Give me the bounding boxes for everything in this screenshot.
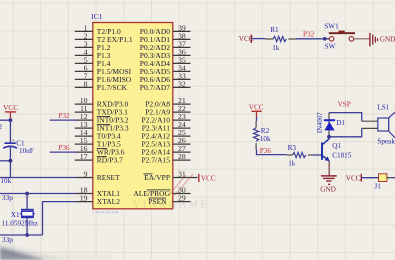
pin 30 (ALE/PROG) stub, number and name: [133, 185, 190, 198]
wire switch to ground: [354, 38, 370, 40]
diode D1 (IN4007): [324, 120, 335, 130]
wire emitter to ground: [328, 161, 330, 175]
wire diode top to speaker +: [329, 113, 378, 122]
svg-text:28: 28: [178, 152, 186, 161]
svg-text:11.0592Mhz: 11.0592Mhz: [2, 219, 38, 227]
pin 29 (PSEN) stub, number and name: [148, 194, 190, 207]
watermark small blue script: [93, 209, 120, 215]
label J1: [374, 183, 381, 191]
wire R1 to switch: [297, 38, 330, 40]
IC U1 body (8051): [93, 23, 173, 209]
label 1k (R3): [288, 159, 296, 167]
pin 19 (XTAL2) stub, number and name: [76, 194, 120, 207]
pin 36 (P0.3/AD3) stub, number and name: [140, 47, 191, 60]
svg-text:P1.7/SCK: P1.7/SCK: [97, 83, 128, 92]
transistor Q1 (NPN C1815): [322, 139, 330, 162]
wire collector node to speaker -: [329, 128, 378, 136]
svg-text:SW1: SW1: [324, 23, 339, 31]
pin 5 (P1.4) stub, number and name: [75, 55, 111, 68]
label 11.0592Mhz: [2, 219, 38, 227]
wire VCC to R1: [251, 38, 265, 40]
pin 33 (P0.6/AD6) stub, number and name: [140, 71, 191, 84]
svg-text:19: 19: [80, 194, 88, 203]
power port VCC (top-right row): [239, 35, 254, 44]
label 10uF: [19, 147, 34, 155]
svg-text:10uF: 10uF: [19, 147, 34, 155]
svg-text:10k: 10k: [0, 177, 11, 185]
power port VCC (above R2): [249, 104, 264, 118]
wire J1 right pin: [387, 177, 395, 179]
svg-text:VCC: VCC: [346, 175, 361, 183]
pin 22 (P2.1/A9) stub, number and name: [145, 104, 190, 117]
pin 28 (P2.7/A15) stub, number and name: [141, 152, 190, 165]
wire from left edge to VCC rail node: [0, 119, 10, 121]
label D1: [336, 119, 345, 127]
svg-text:1k: 1k: [288, 159, 296, 167]
junction node before switch: [323, 37, 327, 41]
wire down to crystal: [26, 194, 28, 210]
label LS1: [377, 103, 389, 111]
svg-text:SW: SW: [325, 42, 336, 50]
svg-text:LS1: LS1: [377, 103, 389, 111]
wire reset node to pin 9: [0, 177, 77, 179]
wire R2 to corner: [257, 150, 287, 155]
svg-text:J1: J1: [374, 183, 381, 191]
wire VCC rail down to C1: [9, 118, 11, 143]
pin 38 (P0.1/AD1) stub, number and name: [140, 31, 191, 44]
label 33p (top capacitor, off-screen): [2, 194, 13, 202]
pin 26 (P2.5/A13) stub, number and name: [141, 136, 190, 149]
net label P32 (key): [303, 31, 315, 39]
pin 34 (P0.5/AD5) stub, number and name: [140, 63, 191, 76]
label X1: [11, 211, 20, 219]
svg-text:VCC: VCC: [201, 174, 216, 182]
pin 18 (XTAL1) stub, number and name: [76, 185, 120, 198]
pin 15 (T1/P3.5) stub, number and name: [75, 136, 121, 149]
wire collector up / diode rail: [328, 113, 330, 139]
power port VCC (EA/VPP pin 31): [199, 174, 216, 183]
pin 2 (T2 EX/P1.1) stub, number and name: [75, 31, 133, 44]
net label P36 (base): [260, 147, 272, 155]
svg-text:R3: R3: [288, 144, 297, 152]
wire P32 to pin 12: [50, 119, 77, 121]
svg-text:9: 9: [84, 169, 88, 178]
power port VCC (top-left): [3, 103, 18, 118]
svg-text:17: 17: [80, 152, 88, 161]
svg-text:C1815: C1815: [332, 152, 352, 160]
wire from left edge into reset rail: [0, 160, 10, 162]
wire up to XTAL2 pin 19: [43, 202, 78, 235]
net label P36: [58, 144, 70, 152]
pin 32 (P0.7/AD7) stub, number and name: [140, 79, 191, 92]
svg-text:IN4007: IN4007: [317, 112, 324, 133]
wire XTAL1 pin 18 to left edge: [0, 193, 77, 195]
pin 16 (WR/P3.6) stub, number and name: [76, 144, 125, 157]
pin 14 (T0/P3.4) stub, number and name: [75, 128, 121, 141]
label Q1: [332, 142, 341, 150]
pin 6 (P1.5/MOSI) stub, number and name: [75, 63, 132, 76]
svg-text:VCC: VCC: [3, 103, 18, 112]
pin 25 (P2.4/A12) stub, number and name: [141, 128, 190, 141]
svg-text:IC1: IC1: [91, 12, 102, 21]
svg-text:1k: 1k: [272, 44, 280, 52]
bottom-left corner shadow: [0, 242, 112, 260]
label 10k (resistor cut off at edge): [0, 177, 11, 185]
label SW1: [324, 23, 339, 31]
junction node collector/diode: [327, 135, 331, 139]
junction node reset rail: [9, 159, 13, 163]
svg-text:GND: GND: [380, 36, 395, 44]
pin 17 (RD/P3.7) stub, number and name: [75, 152, 123, 165]
pin 10 (RXD/P3.0) stub, number and name: [75, 96, 129, 109]
net label P32: [58, 112, 70, 120]
svg-text:P32: P32: [303, 31, 315, 39]
pin 35 (P0.4/AD4) stub, number and name: [140, 55, 191, 68]
pin 39 (P0.0/AD0) stub, number and name: [140, 23, 191, 36]
label SW: [325, 42, 336, 50]
svg-text:33p: 33p: [2, 194, 13, 202]
power port GND (bar style, top-right): [370, 33, 395, 46]
svg-text:R2: R2: [261, 127, 270, 135]
pin 23 (P2.2/A10) stub, number and name: [141, 112, 190, 125]
pin 27 (P2.6/A14) stub, number and name: [141, 144, 190, 157]
pin 21 (P2.0/A8) stub, number and name: [145, 96, 190, 109]
label 1k (R1): [272, 44, 280, 52]
pin 7 (P1.6/MISO) stub, number and name: [75, 71, 132, 84]
label C1815: [332, 152, 352, 160]
wire VCC to R2: [256, 117, 258, 121]
junction node on VCC rail: [9, 118, 13, 122]
label Speaker: [377, 137, 395, 145]
resistor R1: [265, 36, 297, 41]
svg-text:RESET: RESET: [97, 173, 120, 182]
pin 4 (P1.3) stub, number and name: [75, 47, 111, 60]
power port GND (earth, below Q1): [320, 176, 337, 194]
svg-text:P36: P36: [58, 144, 70, 152]
watermark red strokes: [169, 174, 193, 195]
power port VCC (J1): [346, 174, 362, 183]
pin 11 (TXD/P3.1) stub, number and name: [75, 104, 128, 117]
pin 8 (P1.7/SCK) stub, number and name: [75, 79, 128, 92]
switch SW1 (push button): [329, 31, 355, 41]
svg-text:i vvvv.vn.ww: i vvvv.vn.ww: [93, 209, 120, 215]
pin 37 (P0.2/AD2) stub, number and name: [140, 39, 191, 52]
svg-text:P0.7/AD7: P0.7/AD7: [140, 83, 170, 92]
wire VCC to J1: [361, 177, 378, 179]
wire P36 to pin 16: [50, 151, 77, 153]
svg-text:D1: D1: [336, 119, 345, 127]
svg-text:+: +: [12, 138, 15, 144]
wire R3 to Q1 base: [313, 154, 321, 156]
resistor R2 (vertical): [254, 121, 259, 150]
junction node bottom crystal wire: [25, 233, 29, 237]
watermark ghost text: [133, 199, 209, 210]
label IN4007 (rotated): [317, 112, 324, 133]
wire C1 bottom to reset node: [9, 147, 11, 178]
svg-text:X1: X1: [11, 211, 20, 219]
pin 12 (INT0/P3.2) stub, number and name: [76, 112, 129, 125]
svg-text:10k: 10k: [260, 135, 271, 143]
svg-text:33p: 33p: [2, 236, 13, 244]
label R3: [288, 144, 297, 152]
pin 3 (P1.2) stub, number and name: [75, 39, 111, 52]
svg-text:R1: R1: [270, 26, 279, 34]
connector J1: [379, 174, 387, 182]
label C1: [16, 139, 25, 147]
net label fragment 2 at left edge: [0, 123, 3, 131]
svg-text:P36: P36: [260, 147, 272, 155]
pin 31 (EA/VPP) stub, number and name: [144, 169, 198, 182]
label R1: [270, 26, 279, 34]
svg-text:GND: GND: [320, 186, 336, 194]
svg-text:RD/P3.7: RD/P3.7: [97, 156, 123, 165]
label 33p (bottom capacitor, off-screen): [2, 236, 13, 244]
svg-text:VCC: VCC: [249, 104, 264, 112]
svg-text:XTAL2: XTAL2: [97, 197, 120, 206]
pin 13 (INT1/P3.3) stub, number and name: [75, 120, 129, 133]
svg-text:VSP: VSP: [338, 101, 351, 109]
wire crystal bottom down: [26, 217, 28, 235]
resistor R3: [287, 152, 313, 157]
svg-text:Q1: Q1: [332, 142, 341, 150]
IC1 designator label: [91, 12, 102, 21]
svg-text:8: 8: [84, 79, 88, 88]
svg-text:32: 32: [178, 79, 186, 88]
net label VSP: [338, 101, 351, 109]
speaker LS1: [378, 111, 395, 140]
crystal X1: [20, 210, 35, 218]
svg-text:EA/VPP: EA/VPP: [144, 173, 170, 182]
wire bottom run to left edge: [0, 234, 43, 236]
pin 24 (P2.3/A11) stub, number and name: [142, 120, 191, 133]
svg-text:VINAGAME: VINAGAME: [133, 199, 209, 210]
svg-text:P32: P32: [58, 112, 70, 120]
label R2: [261, 127, 270, 135]
svg-text:P2.7/A15: P2.7/A15: [141, 156, 170, 165]
capacitor C1 (electrolytic 10uF): [3, 138, 17, 148]
label 10k (R2): [260, 135, 271, 143]
junction node on XTAL1 wire: [25, 192, 29, 196]
pin 1 (T2/P1.0) stub, number and name: [75, 23, 121, 36]
svg-text:Speaker: Speaker: [377, 137, 395, 145]
pin 9 (RESET) stub, number and name: [76, 169, 120, 182]
